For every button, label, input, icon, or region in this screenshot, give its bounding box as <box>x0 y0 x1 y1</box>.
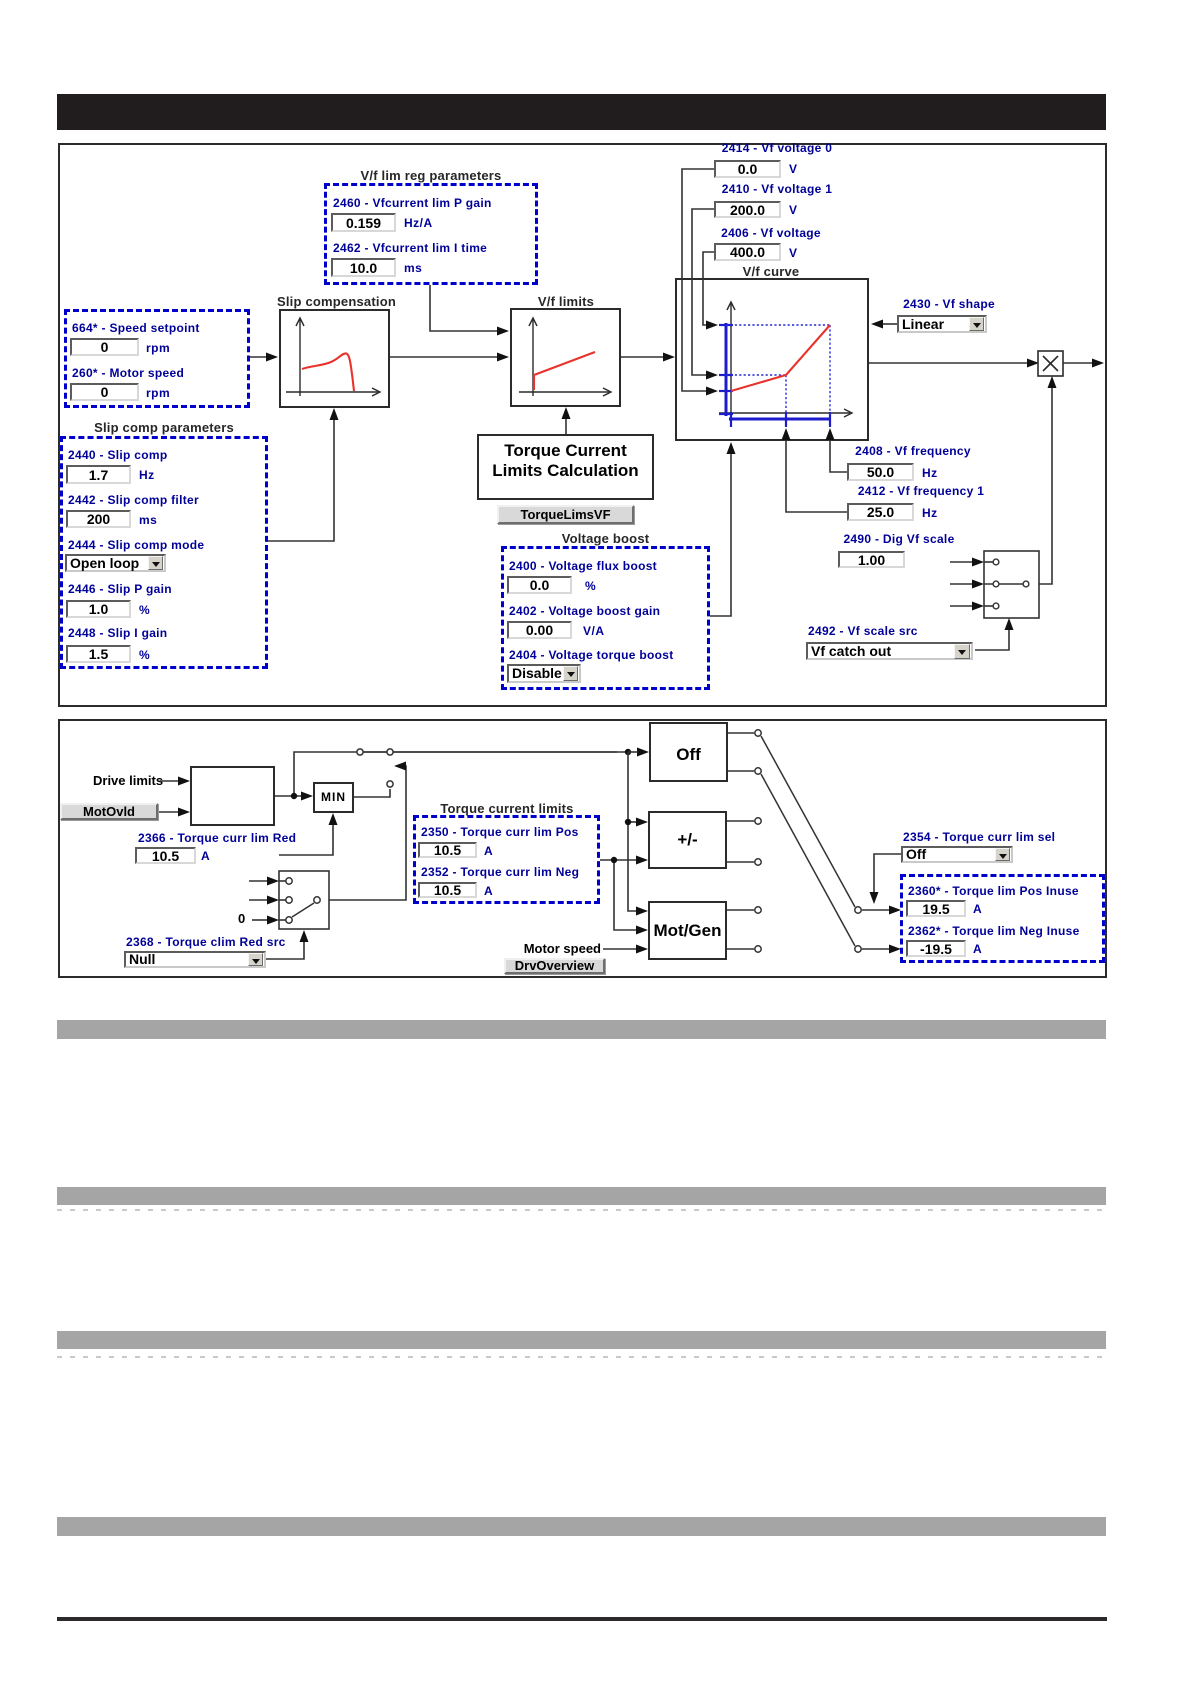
field 2440 value 1.7 <box>66 465 131 484</box>
unit rpm <box>146 341 170 355</box>
arrow up 2408 <box>826 428 835 440</box>
label 2446 <box>68 582 172 596</box>
wire off branch down <box>628 752 637 911</box>
dropdown 2430 Linear <box>897 315 987 333</box>
field 664 value 0 <box>70 338 139 356</box>
wire 2368 null to switch <box>266 941 304 959</box>
arrow pos inuse <box>889 906 901 915</box>
gray bar 4 <box>57 1517 1106 1536</box>
arrow up voltage boost <box>727 442 736 454</box>
junction dot off branch <box>625 749 631 755</box>
wire torque calc to vf limits <box>565 418 567 434</box>
block plus minus <box>648 811 727 869</box>
field 2462 value 10.0 <box>331 258 396 277</box>
inuse contacts <box>855 907 861 952</box>
label zero constant <box>238 912 245 926</box>
vf curve blue voltage bar <box>725 323 728 416</box>
arrow up into multiplier <box>1048 376 1057 388</box>
title Torque current limits <box>413 801 601 816</box>
label 2444 <box>68 538 204 552</box>
label 2448 <box>68 626 167 640</box>
block MIN <box>313 782 354 813</box>
label Drive limits <box>93 774 163 788</box>
wire 2410 to vf curve <box>692 209 714 375</box>
switch block vf scale <box>984 551 1039 618</box>
label 2368 <box>126 935 286 949</box>
arrow into rect upper <box>178 777 190 786</box>
vf curve graph black axes <box>719 303 850 413</box>
wire 2414 to vf curve <box>682 169 714 391</box>
diagram 1 frame <box>58 143 1107 707</box>
button MotOvld <box>60 803 158 820</box>
label 2362 <box>908 924 1080 938</box>
arrow into vf limits upper <box>497 327 509 336</box>
arrow 2414 <box>706 387 718 396</box>
off output stubs <box>728 733 754 771</box>
arrow selector left <box>394 762 406 771</box>
field 2400 value 0.0 <box>507 576 572 594</box>
label 2442 <box>68 493 199 507</box>
wire slip comp params to slip comp block <box>268 419 334 541</box>
gray bar 2 <box>57 1187 1106 1205</box>
arrow up into slip comp block <box>330 408 339 420</box>
dropdown 2368 Null <box>124 951 266 968</box>
arrow into motgen bottom <box>636 945 648 954</box>
off output contacts <box>755 730 761 774</box>
block Mot/Gen <box>648 901 727 960</box>
unit A <box>484 884 493 898</box>
arrow up 2412 <box>782 428 791 440</box>
unit Hz <box>139 468 155 482</box>
unit A <box>973 902 982 916</box>
wires red src switch inputs <box>249 881 268 920</box>
wire voltage boost to vf curve <box>710 453 731 616</box>
label 2404 <box>509 648 674 662</box>
label 2360 <box>908 884 1079 898</box>
label 2490 <box>829 532 969 546</box>
unit Hz/A <box>404 216 433 230</box>
junction dot plusminus <box>625 819 631 825</box>
label 2410 <box>714 182 840 196</box>
vf curve axis arrows <box>727 302 852 417</box>
min output contact <box>387 781 393 787</box>
dashed group box speed inputs <box>64 309 250 408</box>
field 2350 value 10.5 <box>418 842 477 858</box>
plusminus output contacts <box>755 818 761 865</box>
footer rule <box>57 1617 1107 1621</box>
slip graph axis arrows <box>296 318 380 396</box>
bypass line segment right <box>364 751 628 753</box>
vf curve blue frequency ticks <box>731 412 830 427</box>
label 2430 <box>889 297 1009 311</box>
label 2402 <box>509 604 660 618</box>
button TorqueLimsVF <box>497 505 634 524</box>
title Slip compensation <box>277 294 392 309</box>
wire setpoint to slip comp <box>250 356 268 358</box>
wire selector red src <box>322 766 406 900</box>
field 2490 value 1.00 <box>838 551 905 568</box>
dropdown 2404 Disable <box>507 664 581 683</box>
label 2350 <box>421 825 579 839</box>
unit ms <box>404 261 422 275</box>
wire 2366 to min <box>279 823 333 855</box>
arrow neg inuse <box>889 945 901 954</box>
multiplier block <box>1038 351 1063 376</box>
wire 2412 to vf curve <box>786 440 847 512</box>
unit percent <box>585 579 596 593</box>
arrow into min <box>301 792 313 801</box>
wire torque limits to plusminus and motgen <box>600 860 637 930</box>
wire 2406 to vf curve <box>703 252 714 325</box>
wire multiplier output <box>1063 362 1093 364</box>
arrow left into vf curve <box>871 320 883 329</box>
field 2414 value 0.0 <box>714 160 781 178</box>
arrow up into min bottom <box>329 813 338 825</box>
field 2406 value 400.0 <box>714 243 781 261</box>
field 2402 value 0.00 <box>507 621 572 639</box>
arrow into off <box>637 748 649 757</box>
label 2414 <box>714 141 840 155</box>
dropdown 2444 Open loop <box>65 554 166 572</box>
arrow into slip comp <box>266 353 278 362</box>
vf limits graph <box>519 319 609 396</box>
unit V <box>789 203 798 217</box>
arrow up into vf limits bottom <box>562 407 571 419</box>
wire drive limits text to rect <box>160 780 179 782</box>
wire vf lim reg params to vf limits <box>430 285 498 331</box>
vf curve blue voltage ticks <box>719 325 733 414</box>
field 2352 value 10.5 <box>418 882 477 898</box>
field 260 value 0 <box>70 383 139 401</box>
arrow up 2492 <box>1005 618 1014 630</box>
arrow into vf limits <box>497 353 509 362</box>
wire pos inuse <box>862 909 890 911</box>
label 2462 <box>333 241 487 255</box>
field 2442 value 200 <box>66 510 131 528</box>
label 2408 <box>843 444 983 458</box>
dashed group box slip comp parameters <box>60 436 268 669</box>
vf curve blue frequency bar <box>729 418 830 421</box>
field 2360 value 19.5 <box>906 900 966 917</box>
arrows scale src inputs <box>972 558 984 567</box>
field 2460 value 0.159 <box>331 213 396 232</box>
title V/f curve <box>721 264 821 279</box>
motgen output contacts <box>755 907 761 952</box>
red src switch contacts <box>286 878 320 923</box>
arrow into motgen top <box>636 907 648 916</box>
faint rule below bar 2 <box>57 1209 1106 1211</box>
title V/f limits <box>510 294 622 309</box>
arrows red src switch inputs <box>267 877 279 886</box>
DIAGRAM2_FRAME <box>58 719 1107 978</box>
unit V <box>789 246 798 260</box>
arrow into plusminus bottom <box>636 856 648 865</box>
gray bar 1 <box>57 1020 1106 1039</box>
arrow 2406 <box>706 321 718 330</box>
field 2412 value 25.0 <box>847 503 914 521</box>
field 2366 value 10.5 <box>135 847 196 864</box>
red src switch lever <box>292 903 314 917</box>
vf curve blue dotted guides <box>726 325 830 418</box>
wire min output to contact <box>354 789 390 797</box>
arrow into vf curve <box>663 353 675 362</box>
button DrvOverview <box>504 958 605 974</box>
arrow up into red src switch <box>300 930 309 942</box>
slip compensation graph <box>286 319 378 396</box>
vf curve red curve <box>731 325 830 391</box>
label 2412 <box>846 484 996 498</box>
unit V <box>789 162 798 176</box>
label 2492 <box>808 624 918 638</box>
label 2400 <box>509 559 657 573</box>
unit V/A <box>583 624 605 638</box>
block Off <box>649 722 728 782</box>
unit percent <box>139 648 150 662</box>
wire neg inuse <box>862 948 890 950</box>
field 2362 value -19.5 <box>906 940 966 957</box>
arrow into rect lower <box>178 808 190 817</box>
vf limits axis arrows <box>529 318 611 396</box>
unit Hz <box>922 466 938 480</box>
dropdown 2354 Off <box>901 846 1013 863</box>
block Slip compensation <box>279 309 390 408</box>
unit A <box>973 942 982 956</box>
arrow into motgen mid <box>636 926 648 935</box>
plusminus output stubs <box>727 821 754 862</box>
selector diagonal neg <box>761 774 855 946</box>
dashed group box V/f lim reg parameters <box>324 183 538 285</box>
selector diagonal pos <box>761 736 855 907</box>
dashed group box voltage boost <box>501 546 710 690</box>
wire slip comp to vf limits <box>390 356 498 358</box>
wire scale switch to multiplier <box>1030 387 1052 584</box>
wire vf curve to multiplier <box>869 362 1028 364</box>
label 664 Speed setpoint <box>72 321 200 335</box>
junction dot rect-min <box>291 793 297 799</box>
wire scale src inputs <box>950 562 973 606</box>
arrow down 2354 <box>870 892 879 904</box>
arrow into plusminus top <box>636 818 648 827</box>
block V/f curve <box>675 278 869 441</box>
switch block red src <box>279 871 329 929</box>
wire 2408 to vf curve <box>830 440 847 472</box>
wire motovld to rect <box>159 811 179 813</box>
unit A <box>201 849 210 863</box>
switch contacts vf scale <box>993 559 1029 609</box>
junction dot torque limits <box>611 857 617 863</box>
wire vf limits to vf curve <box>621 356 664 358</box>
block drive limits rect <box>190 766 275 826</box>
label 2354 <box>903 830 1055 844</box>
bypass open contacts <box>357 749 393 755</box>
label 2352 <box>421 865 579 879</box>
label 2440 <box>68 448 168 462</box>
faint rule below bar 3 <box>57 1356 1106 1358</box>
wire motor speed to motgen <box>603 948 637 950</box>
field 2410 value 200.0 <box>714 201 781 218</box>
wire 2492 to switch <box>975 629 1009 650</box>
dashed group box torque lim inuse <box>900 874 1105 963</box>
field 2408 value 50.0 <box>847 463 914 481</box>
slip graph red curve <box>302 353 354 391</box>
wire 2354 selector <box>874 854 901 893</box>
arrow output right <box>1092 359 1104 368</box>
block V/f limits <box>510 308 621 407</box>
title V/f lim reg parameters <box>324 168 538 183</box>
dropdown 2492 Vf catch out <box>806 642 973 660</box>
label 2366 <box>138 831 296 845</box>
wire rect to min with branch <box>275 752 617 796</box>
label 260 Motor speed <box>72 366 184 380</box>
field 2448 value 1.5 <box>66 645 131 663</box>
label 2460 <box>333 196 492 210</box>
arrow 2410 <box>706 371 718 380</box>
vf limits red curve <box>534 352 595 390</box>
title Slip comp parameters <box>60 420 268 435</box>
unit A <box>484 844 493 858</box>
wire 2430 linear to vf curve <box>882 323 897 325</box>
header black bar <box>57 94 1106 130</box>
block Torque Current Limits Calculation <box>477 434 654 500</box>
field 2446 value 1.0 <box>66 600 131 618</box>
label 2406 <box>714 226 828 240</box>
unit rpm <box>146 386 170 400</box>
dashed group box torque current limits <box>413 815 600 904</box>
unit Hz <box>922 506 938 520</box>
unit ms <box>139 513 157 527</box>
gray bar 3 <box>57 1331 1106 1349</box>
unit percent <box>139 603 150 617</box>
motgen output stubs <box>727 910 754 949</box>
label Motor speed <box>500 942 601 956</box>
title Voltage boost <box>501 531 710 546</box>
